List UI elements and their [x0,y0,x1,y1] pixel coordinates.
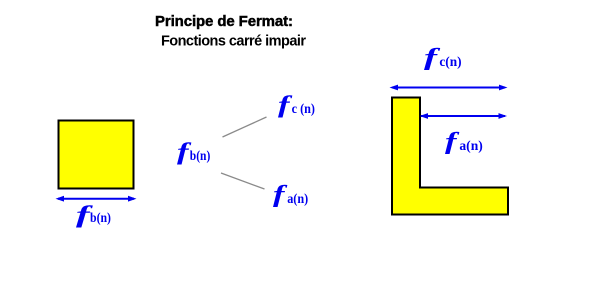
right middle dimension arrow fa(n) [420,113,508,119]
svg-text:a(n): a(n) [459,139,483,154]
grey connector line lower [221,173,265,189]
right top dimension arrow [390,85,508,91]
svg-text:c (n): c (n) [292,102,316,117]
left yellow square [59,121,134,189]
left dimension arrow fb(n) [56,196,137,202]
svg-text:Fonctions carré impair: Fonctions carré impair [161,34,306,50]
svg-text:b(n): b(n) [190,149,211,164]
svg-text:Principe de Fermat:: Principe de Fermat: [155,13,293,30]
svg-text:a(n): a(n) [287,192,308,207]
grey connector line upper [223,117,267,137]
L-shape yellow polygon [392,98,508,215]
svg-text:c(n): c(n) [439,55,462,70]
svg-text:b(n): b(n) [90,211,111,226]
